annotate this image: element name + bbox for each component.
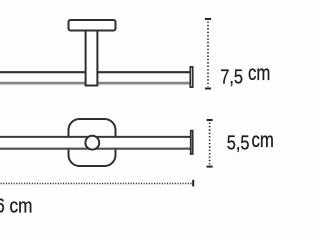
dimension line 5,5 top tick <box>207 119 213 121</box>
dimension line 7,5 top tick <box>205 18 211 20</box>
front view: rail end cap <box>191 131 193 154</box>
front view: rail bar top edge <box>0 136 190 138</box>
dimension line 5,5 bottom tick <box>207 166 213 168</box>
front view: centre roller circle <box>85 136 99 150</box>
svg-text:cm: cm <box>252 129 274 152</box>
front view: rail bar body (white fill over plate) <box>0 138 190 148</box>
dimension line 7,5 dotted vertical <box>207 22 209 87</box>
svg-text:6 cm: 6 cm <box>0 195 33 218</box>
dimension line 5,5 dotted vertical <box>209 123 211 165</box>
width dimension dotted horizontal line <box>0 183 192 185</box>
top view: rail bar top edge <box>0 71 190 73</box>
top view: mounting cap plate <box>69 20 116 31</box>
top view: rail bar bottom edge (grey) <box>0 82 190 85</box>
front view: wall plate (rounded square) <box>69 119 116 166</box>
svg-text:7,5: 7,5 <box>220 65 243 88</box>
dimension line 7,5 bottom tick <box>205 88 211 90</box>
svg-text:cm: cm <box>248 62 270 85</box>
top view: rail end cap <box>190 67 192 87</box>
width dimension right tick <box>192 180 194 187</box>
svg-text:5,5: 5,5 <box>227 131 250 154</box>
top view: mounting post <box>86 24 98 86</box>
front view: rail bar bottom edge <box>0 148 190 150</box>
